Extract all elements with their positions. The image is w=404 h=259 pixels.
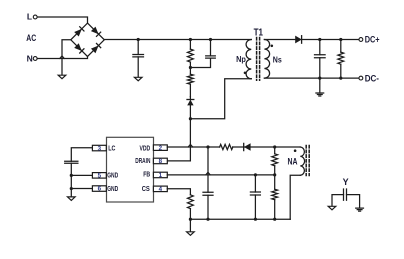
diode clamp (cathode up): [187, 99, 194, 101]
pin box 4: [153, 186, 167, 192]
diode output (points right): [295, 36, 302, 44]
node output R top: [339, 38, 342, 41]
diode VDD (points left): [243, 143, 245, 150]
wire pin4 CS: [167, 189, 190, 195]
node CS ground: [189, 218, 192, 221]
NA polarity dot: [294, 149, 297, 152]
NA core: [305, 146, 307, 176]
svg-text:DRAIN: DRAIN: [135, 156, 150, 165]
svg-text:DC-: DC-: [365, 73, 379, 83]
ground (Y left): [328, 206, 336, 210]
svg-text:Np: Np: [236, 54, 246, 64]
node bulk cap tap: [137, 38, 140, 41]
pin box 5: [92, 173, 106, 179]
terminal N: [33, 57, 37, 61]
terminal DC+: [359, 38, 363, 42]
wire Ns top to diode: [264, 39, 295, 41]
node output cap bottom: [318, 77, 321, 80]
svg-text:LC: LC: [108, 144, 116, 153]
capacitor output: [319, 40, 321, 55]
wire hop VDD over drain: [188, 144, 193, 147]
node output cap top: [318, 38, 321, 41]
wire bridge DC- to ground: [62, 40, 71, 75]
ground (LC): [68, 197, 76, 201]
resistor clamp upper: [189, 40, 191, 50]
svg-text:VDD: VDD: [140, 144, 151, 153]
svg-text:AC: AC: [26, 33, 36, 43]
svg-text:2: 2: [159, 145, 163, 152]
bridge diode top-left: [74, 29, 82, 37]
bridge diode bottom-right: [91, 46, 99, 54]
pin box 2: [153, 145, 167, 151]
svg-text:3: 3: [98, 145, 102, 152]
Ns polarity dot: [271, 45, 274, 48]
pin box 3: [92, 145, 106, 151]
resistor output load: [340, 40, 342, 53]
resistor divider lower: [274, 175, 276, 189]
ground (bulk cap): [134, 77, 142, 81]
T1 core: [256, 38, 258, 81]
wire L to bridge top: [37, 17, 87, 23]
node drain junction: [189, 117, 192, 120]
node clamp R tap: [189, 38, 192, 41]
resistor VDD series: [220, 144, 233, 149]
ground earth (secondary): [319, 78, 321, 93]
terminal DC-: [359, 76, 363, 80]
svg-text:6: 6: [98, 186, 102, 193]
svg-text:1: 1: [159, 172, 163, 179]
wire VDD: [167, 146, 219, 148]
wire Ns bottom to DC-: [264, 77, 359, 79]
resistor CS: [188, 195, 194, 209]
svg-text:CS: CS: [142, 184, 150, 193]
capacitor FB filter: [254, 175, 256, 192]
bridge diode top-right: [91, 27, 99, 35]
capacitor LC: [65, 161, 78, 163]
ground earth (Y right): [356, 208, 364, 211]
pin box 8: [153, 158, 167, 164]
svg-text:N: N: [27, 53, 33, 63]
wire drain to Np bottom: [190, 79, 251, 119]
wire NA bottom: [290, 175, 300, 219]
node clamp C tap: [209, 38, 212, 41]
capacitor Y: [344, 189, 347, 200]
wire pin3 LC: [71, 148, 92, 162]
terminal L: [33, 15, 37, 19]
wire hop N over ground line: [60, 56, 65, 59]
pin box 1: [153, 172, 167, 178]
transformer T1 primary Np: [246, 40, 251, 79]
wire common bottom: [190, 218, 290, 220]
ground (bridge): [58, 75, 66, 79]
node output R bottom: [339, 77, 342, 80]
wire pin6: [71, 188, 92, 190]
transformer T1 secondary Ns: [264, 40, 269, 79]
resistor clamp lower: [188, 74, 194, 84]
svg-text:L: L: [27, 12, 32, 22]
bridge diode bottom-left: [74, 43, 82, 51]
svg-text:GND: GND: [107, 170, 118, 179]
wire diode to DC+: [302, 39, 359, 41]
svg-text:FB: FB: [143, 169, 150, 178]
svg-text:4: 4: [159, 186, 163, 193]
svg-text:DC+: DC+: [365, 35, 380, 45]
svg-text:NA: NA: [288, 156, 298, 166]
capacitor bulk: [137, 40, 139, 55]
capacitor VDD bypass: [207, 147, 209, 192]
wire N to bridge bottom: [37, 57, 87, 59]
svg-text:Y: Y: [343, 177, 349, 187]
wire pin5: [71, 174, 92, 176]
Np polarity dot: [244, 72, 247, 75]
node clamp RC join: [189, 66, 192, 69]
svg-text:Ns: Ns: [273, 54, 282, 64]
svg-text:5: 5: [98, 173, 102, 180]
winding NA: [300, 147, 304, 175]
svg-text:8: 8: [159, 158, 163, 165]
wire HV rail: [104, 39, 251, 41]
IC U1 body: [107, 137, 154, 202]
bridge rectifier BR1 diamond: [71, 23, 105, 56]
capacitor clamp: [210, 40, 212, 56]
svg-text:T1: T1: [254, 27, 264, 38]
wire FB: [167, 174, 274, 176]
resistor divider upper: [274, 147, 276, 154]
wire drain vertical to pin 8: [167, 119, 190, 161]
ground (CS): [189, 219, 191, 232]
svg-text:GND: GND: [107, 184, 118, 193]
pin box 6: [92, 186, 106, 192]
